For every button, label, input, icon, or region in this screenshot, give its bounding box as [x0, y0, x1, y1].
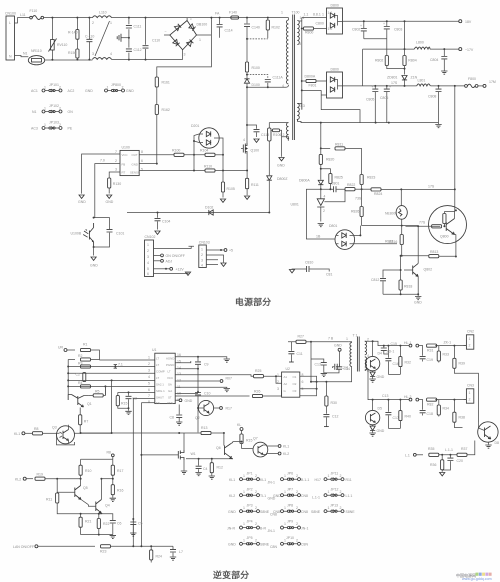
- svg-text:T100: T100: [292, 11, 300, 15]
- svg-text:A1: A1: [284, 375, 288, 379]
- svg-text:C111: C111: [134, 25, 142, 29]
- svg-text:DB100: DB100: [197, 23, 208, 27]
- svg-text:O1: O1: [293, 375, 297, 379]
- svg-text:CN8: CN8: [273, 510, 280, 514]
- terminal HL1: [404, 341, 412, 347]
- resistor R17: [111, 459, 123, 479]
- secondary bottom wire: [365, 369, 409, 399]
- bridge rectifier DB100: [164, 17, 211, 57]
- svg-text:CN8: CN8: [301, 510, 308, 514]
- svg-text:JP6: JP6: [287, 472, 293, 476]
- svg-text:ON: ON: [68, 110, 74, 114]
- resistor R36 + ground: [430, 455, 445, 476]
- svg-text:CN103: CN103: [199, 241, 210, 245]
- svg-text:R100: R100: [252, 66, 260, 70]
- svg-text:CN3: CN3: [467, 384, 474, 388]
- emitter drop: [455, 235, 457, 257]
- resistor R27: [288, 335, 311, 344]
- switch node down to MOSFET drain: [246, 87, 248, 125]
- svg-text:2: 2: [255, 506, 257, 510]
- svg-text:R104: R104: [200, 149, 208, 153]
- svg-text:~17V: ~17V: [465, 48, 474, 52]
- svg-text:R-140: R-140: [68, 31, 78, 35]
- svg-text:R17: R17: [226, 407, 232, 411]
- fuse F140 in rail: [229, 11, 239, 20]
- svg-text:C111A: C111A: [273, 76, 284, 80]
- zener + GND under Q5g: [369, 425, 384, 436]
- svg-text:JP102: JP102: [49, 104, 59, 108]
- svg-text:17M: 17M: [489, 80, 496, 84]
- terminals KL1b KL2b: [267, 445, 289, 449]
- svg-text:A2: A2: [284, 382, 288, 386]
- svg-text:2: 2: [469, 398, 471, 402]
- svg-text:1: 1: [243, 506, 245, 510]
- svg-text:JP103: JP103: [49, 121, 59, 125]
- svg-text:JP7: JP7: [287, 488, 293, 492]
- svg-text:D800: D800: [331, 4, 339, 8]
- svg-text:C101: C101: [116, 232, 124, 236]
- svg-text:Q5: Q5: [83, 486, 88, 490]
- thermistor NR110: [28, 49, 44, 65]
- svg-text:R21: R21: [85, 520, 91, 524]
- svg-text:R12: R12: [217, 466, 223, 470]
- terminal KL2: [15, 472, 82, 481]
- svg-text:C16: C16: [393, 362, 399, 366]
- resistor R2: [68, 354, 90, 361]
- svg-text:3: 3: [147, 255, 149, 259]
- svg-text:U100: U100: [122, 146, 130, 150]
- jumper JP2: [229, 488, 276, 501]
- svg-text:8.8.1: 8.8.1: [313, 13, 321, 17]
- svg-text:2: 2: [340, 506, 342, 510]
- svg-text:2: 2: [296, 522, 298, 526]
- resistor R106 (aux supply): [268, 123, 282, 176]
- svg-text:Q802: Q802: [424, 268, 433, 272]
- svg-text:JP2: JP2: [247, 488, 253, 492]
- svg-text:4: 4: [110, 52, 112, 56]
- svg-text:D800A: D800A: [305, 75, 316, 79]
- svg-text:L.1-1: L.1-1: [445, 448, 453, 452]
- svg-text:1: 1: [243, 522, 245, 526]
- svg-text:7.1: 7.1: [118, 363, 123, 367]
- pin3 wire + resistor R130 to GND: [106, 172, 122, 204]
- svg-text:W1: W1: [191, 452, 196, 456]
- pin6 wire with R15 and C3: [118, 391, 155, 393]
- power transistor Q8 big circle: [478, 422, 499, 445]
- svg-text:3: 3: [148, 369, 150, 373]
- CN102 pin2 circle ON: [154, 254, 185, 258]
- svg-text:Q1: Q1: [87, 402, 92, 406]
- R31 segment: [416, 344, 467, 353]
- svg-text:1: 1: [284, 539, 286, 543]
- resistor R828: [351, 189, 363, 225]
- jumper JP1: [229, 472, 275, 485]
- svg-text:F140: F140: [229, 11, 237, 15]
- svg-text:1.2: 1.2: [328, 27, 333, 31]
- svg-text:C19: C19: [427, 358, 433, 362]
- connector CN103: [199, 241, 210, 268]
- svg-text:7: 7: [148, 394, 150, 398]
- svg-text:1.1: 1.1: [328, 11, 333, 15]
- svg-text:2: 2: [255, 474, 257, 478]
- terminal KL0 + R15: [237, 423, 252, 449]
- pin2 wire down to opto collector: [95, 164, 120, 218]
- cap C20: [442, 455, 463, 470]
- shunt reg U801: [291, 189, 362, 221]
- svg-text:2: 2: [323, 209, 325, 213]
- rail3 (17S): [343, 85, 465, 87]
- Q802 collector column: [417, 226, 419, 263]
- svg-text:C808: C808: [428, 95, 436, 99]
- svg-text:18V: 18V: [465, 20, 472, 24]
- svg-text:D100: D100: [252, 83, 260, 87]
- svg-text:1.1: 1.1: [304, 13, 309, 17]
- svg-text:JN-1: JN-1: [268, 481, 275, 485]
- opto collector riser: [355, 226, 419, 236]
- svg-text:C15: C15: [391, 342, 397, 346]
- sense resistor under MOSFET: [245, 154, 259, 199]
- svg-text:ST: ST: [168, 395, 172, 399]
- svg-text:AC1: AC1: [31, 89, 38, 93]
- svg-text:+: +: [372, 85, 374, 89]
- svg-text:C13: C13: [315, 363, 321, 367]
- svg-text:C114: C114: [225, 29, 233, 33]
- svg-text:D800: D800: [331, 68, 339, 72]
- svg-text:C-110: C-110: [85, 35, 94, 39]
- left rail of divider bank: [67, 360, 69, 401]
- svg-text:2: 2: [190, 17, 192, 21]
- svg-text:AGND: AGND: [166, 356, 174, 360]
- svg-text:R82: R82: [427, 403, 433, 407]
- resistor R21: [79, 514, 91, 535]
- svg-text:Q4: Q4: [105, 504, 110, 508]
- wire L pin to fuse: [15, 18, 30, 23]
- wire to D800 top pin: [302, 18, 327, 22]
- svg-text:R17: R17: [117, 469, 123, 473]
- svg-text:D201: D201: [191, 124, 199, 128]
- electrolytic C804: [430, 49, 447, 74]
- svg-text:1: 1: [243, 539, 245, 543]
- secondary top wire: [365, 341, 409, 345]
- MOSFET W1: [140, 450, 195, 460]
- resistor R39 drop to lower right: [453, 346, 479, 422]
- svg-text:Q800: Q800: [440, 235, 449, 239]
- resistor R102: [266, 17, 280, 39]
- cap C5 on x133: [130, 518, 142, 536]
- svg-text:R15: R15: [121, 402, 127, 406]
- opto cathode wire: [355, 243, 398, 245]
- terminal R17b: [214, 407, 232, 411]
- svg-text:6: 6: [148, 388, 150, 392]
- svg-text:C13: C13: [382, 394, 388, 398]
- svg-text:PE: PE: [68, 127, 73, 131]
- zener D800A: [299, 169, 323, 189]
- jumper JP5: [228, 536, 277, 549]
- CN102 pin3 circle ADJ: [154, 259, 173, 263]
- svg-text:77S: 77S: [419, 221, 426, 225]
- resistor R150: [68, 39, 79, 60]
- bridge bottom to AC rail: [182, 50, 184, 60]
- terminal R81 + top link: [81, 451, 115, 460]
- svg-text:1: 1: [284, 522, 286, 526]
- transistor Q1: [68, 395, 92, 408]
- snubber C810: [289, 261, 332, 277]
- inductor L800: [414, 41, 430, 50]
- resistor R16 + ground: [110, 479, 124, 502]
- svg-text:Q6: Q6: [216, 446, 221, 450]
- svg-text:2: 2: [59, 107, 61, 111]
- svg-text:R32: R32: [405, 361, 411, 365]
- junction: [51, 17, 53, 19]
- svg-text:KL: KL: [237, 423, 241, 427]
- optocoupler D201: [191, 124, 219, 148]
- svg-text:逆变部分: 逆变部分: [213, 569, 249, 580]
- svg-text:U801: U801: [291, 203, 299, 207]
- ground rail: [81, 534, 113, 536]
- svg-text:C802: C802: [352, 28, 360, 32]
- svg-text:GND: GND: [90, 264, 98, 268]
- svg-text:1: 1: [322, 13, 324, 17]
- svg-text:6: 6: [147, 272, 149, 276]
- svg-text:3: 3: [115, 168, 117, 172]
- cap C9: [195, 357, 209, 369]
- svg-text:R8: R8: [107, 451, 112, 455]
- jumper JP8: [273, 504, 321, 515]
- svg-text:4: 4: [147, 261, 149, 265]
- svg-text:JP101: JP101: [49, 83, 59, 87]
- IC U2: [277, 367, 304, 397]
- svg-text:R30: R30: [331, 401, 337, 405]
- svg-text:1: 1: [346, 337, 348, 341]
- svg-text:R102: R102: [272, 26, 280, 30]
- svg-text:3.3: 3.3: [300, 104, 305, 108]
- collector node + cap C101: [93, 217, 95, 219]
- svg-text:C5: C5: [138, 522, 143, 526]
- capacitor C112: [126, 38, 142, 60]
- opto output transistor Q100B: [71, 223, 94, 247]
- svg-text:L801: L801: [418, 79, 426, 83]
- resistor R6: [88, 386, 105, 397]
- svg-text:C8: C8: [170, 416, 175, 420]
- svg-text:VCC: VCC: [167, 376, 173, 380]
- pin7 wire to GND: [78, 154, 120, 204]
- transistor Q4: [88, 479, 109, 514]
- svg-text:1: 1: [44, 86, 46, 90]
- svg-text:3: 3: [201, 259, 203, 263]
- svg-text:GND: GND: [377, 375, 385, 379]
- svg-text:R130: R130: [113, 182, 121, 186]
- transformer T1: [346, 337, 369, 374]
- jumper JP10: [281, 536, 309, 547]
- svg-text:R161: R161: [162, 81, 170, 85]
- resistor R100: [172, 149, 184, 157]
- MOSFET drain to rail: [183, 433, 185, 450]
- svg-text:R25: R25: [255, 369, 261, 373]
- terminal 18V: [459, 20, 472, 24]
- svg-text:S8NE: S8NE: [346, 510, 356, 514]
- wire row4 pin4: [68, 379, 155, 381]
- transistor Q6: [216, 433, 233, 459]
- resistor R825 branch: [321, 169, 343, 190]
- svg-text:G: G: [284, 389, 287, 393]
- svg-text:R4: R4: [78, 381, 83, 385]
- transistor Q802: [404, 263, 432, 294]
- svg-text:JP10: JP10: [286, 536, 294, 540]
- svg-text:SA: SA: [168, 382, 172, 386]
- svg-text:JP4: JP4: [247, 520, 253, 524]
- electrolytic C802: [352, 21, 367, 39]
- svg-text:L800: L800: [416, 41, 424, 45]
- LAN ON/OFF line: [13, 545, 173, 554]
- gate drive Q5g circle: [365, 400, 382, 425]
- svg-text:JP11: JP11: [331, 472, 339, 476]
- jumper JP12: [324, 488, 352, 499]
- top rail after L110: [112, 17, 289, 19]
- svg-text:C17: C17: [393, 416, 399, 420]
- svg-text:2: 2: [296, 539, 298, 543]
- wire row5 pin5 + resistor R4: [68, 385, 155, 387]
- resistor R10: [79, 459, 91, 479]
- aux return rail: [297, 103, 302, 109]
- svg-text:UR: UR: [58, 346, 64, 350]
- svg-text:1: 1: [284, 506, 286, 510]
- diode D102 on sense wire: [205, 206, 213, 216]
- svg-text:GND: GND: [78, 200, 86, 204]
- svg-text:FA: FA: [215, 12, 220, 16]
- svg-text:2: 2: [59, 86, 61, 90]
- svg-text:JP8: JP8: [287, 504, 293, 508]
- svg-text:C6: C6: [117, 522, 122, 526]
- wire fuse to L110: [44, 17, 93, 19]
- transistor Q5: [57, 479, 88, 505]
- svg-text:D4: D4: [378, 352, 383, 356]
- svg-text:7 B: 7 B: [328, 337, 334, 341]
- svg-text:R811: R811: [335, 143, 343, 147]
- resistor R152: [155, 105, 170, 115]
- svg-text:1: 1: [328, 506, 330, 510]
- svg-text:R36: R36: [430, 463, 436, 467]
- clamp resistor R100: [246, 39, 248, 62]
- zener D103: [267, 176, 289, 213]
- svg-text:R823: R823: [367, 176, 375, 180]
- svg-text:JP1: JP1: [247, 472, 253, 476]
- cap C11: [288, 342, 302, 362]
- svg-text:GND: GND: [106, 200, 114, 204]
- svg-text:KL1: KL1: [14, 432, 20, 436]
- transistor Q3 in circle: [52, 426, 75, 445]
- svg-text:1: 1: [201, 248, 203, 252]
- cap C1: [76, 373, 86, 382]
- svg-text:Q100: Q100: [251, 149, 260, 153]
- svg-text:~: ~: [165, 30, 167, 34]
- svg-text:R1: R1: [83, 343, 88, 347]
- svg-text:17S: 17S: [391, 81, 398, 85]
- CN103 pins 3,4 stubs: [206, 260, 218, 265]
- CN102 pin1 wire to bar: [154, 246, 195, 248]
- switch node wire to transformer: [247, 85, 289, 87]
- svg-text:R33: R33: [443, 353, 449, 357]
- common mode choke L110: [92, 11, 112, 60]
- svg-text:1: 1: [243, 474, 245, 478]
- svg-text:SHUT: SHUT: [156, 395, 164, 399]
- resistor R800: [302, 22, 327, 35]
- ground bar under caps: [321, 373, 327, 376]
- svg-text:8: 8: [148, 400, 150, 404]
- dual diode D800: [327, 4, 343, 35]
- resistor R33: [437, 346, 449, 363]
- transistor Q7 in circle: [253, 437, 268, 458]
- opto D801 LED side: [329, 224, 355, 249]
- svg-text:R826: R826: [351, 210, 359, 214]
- svg-text:LT: LT: [156, 376, 159, 380]
- svg-text:N1: N1: [23, 52, 28, 56]
- svg-text:L: L: [9, 21, 11, 25]
- L1 row: [405, 447, 457, 458]
- svg-text:LAN ON/OFF: LAN ON/OFF: [13, 545, 34, 549]
- pin11 wire + gnd: [175, 386, 227, 389]
- svg-text:R31: R31: [427, 349, 433, 353]
- svg-text:R804: R804: [408, 59, 416, 63]
- svg-text:O2: O2: [293, 382, 297, 386]
- svg-text:B.1-1: B.1-1: [301, 478, 309, 482]
- svg-text:4: 4: [282, 84, 284, 88]
- terminal ~17V: [459, 48, 474, 52]
- svg-text:1: 1: [243, 490, 245, 494]
- svg-text:AC3: AC3: [31, 127, 38, 131]
- svg-text:1: 1: [281, 11, 283, 15]
- inverter IC U1: [152, 348, 175, 405]
- svg-text:Q2: Q2: [195, 416, 200, 420]
- svg-text:1: 1: [328, 474, 330, 478]
- svg-text:SA2.1: SA2.1: [156, 382, 164, 386]
- transformer T100: [281, 11, 305, 141]
- svg-text:SENSE: SENSE: [130, 171, 140, 175]
- pin8 wire right: [139, 154, 174, 156]
- capacitor C140: [244, 17, 260, 39]
- svg-text:2: 2: [255, 539, 257, 543]
- svg-text:R11: R11: [46, 498, 52, 502]
- svg-text:R11: R11: [346, 478, 352, 482]
- zener ZD801: [387, 76, 418, 86]
- electrolytic C114: [215, 12, 233, 38]
- svg-text:3: 3: [184, 53, 186, 57]
- svg-text:6: 6: [141, 159, 143, 163]
- svg-text:C104: C104: [162, 220, 170, 224]
- U2 tie vertical: [276, 376, 282, 383]
- svg-text:2: 2: [340, 490, 342, 494]
- resistor R140: [68, 17, 79, 40]
- resistor R30 + cap C12: [323, 382, 338, 427]
- svg-text:KL1: KL1: [260, 478, 266, 482]
- svg-text:7: 7: [115, 150, 117, 154]
- wire to T1 primary bottom: [311, 366, 352, 381]
- pin13 wire long to R25: [175, 375, 253, 376]
- lower feed wire: [302, 90, 360, 122]
- opto right tap to x223 column: [219, 138, 223, 182]
- svg-text:JP12: JP12: [331, 488, 339, 492]
- long feedback verticals: [133, 398, 155, 545]
- svg-text:GND: GND: [85, 89, 93, 93]
- svg-text:C112: C112: [134, 48, 142, 52]
- svg-text:S8NE: S8NE: [311, 510, 321, 514]
- svg-text:KL1: KL1: [229, 478, 235, 482]
- svg-text:5: 5: [141, 168, 143, 172]
- bottom AC rail after L110: [112, 59, 183, 61]
- GND terminal + caps C13/C14: [334, 344, 342, 367]
- pin14 wire: [175, 368, 198, 370]
- wire N pin to NR110: [15, 56, 29, 57]
- svg-text:CN102: CN102: [145, 235, 156, 239]
